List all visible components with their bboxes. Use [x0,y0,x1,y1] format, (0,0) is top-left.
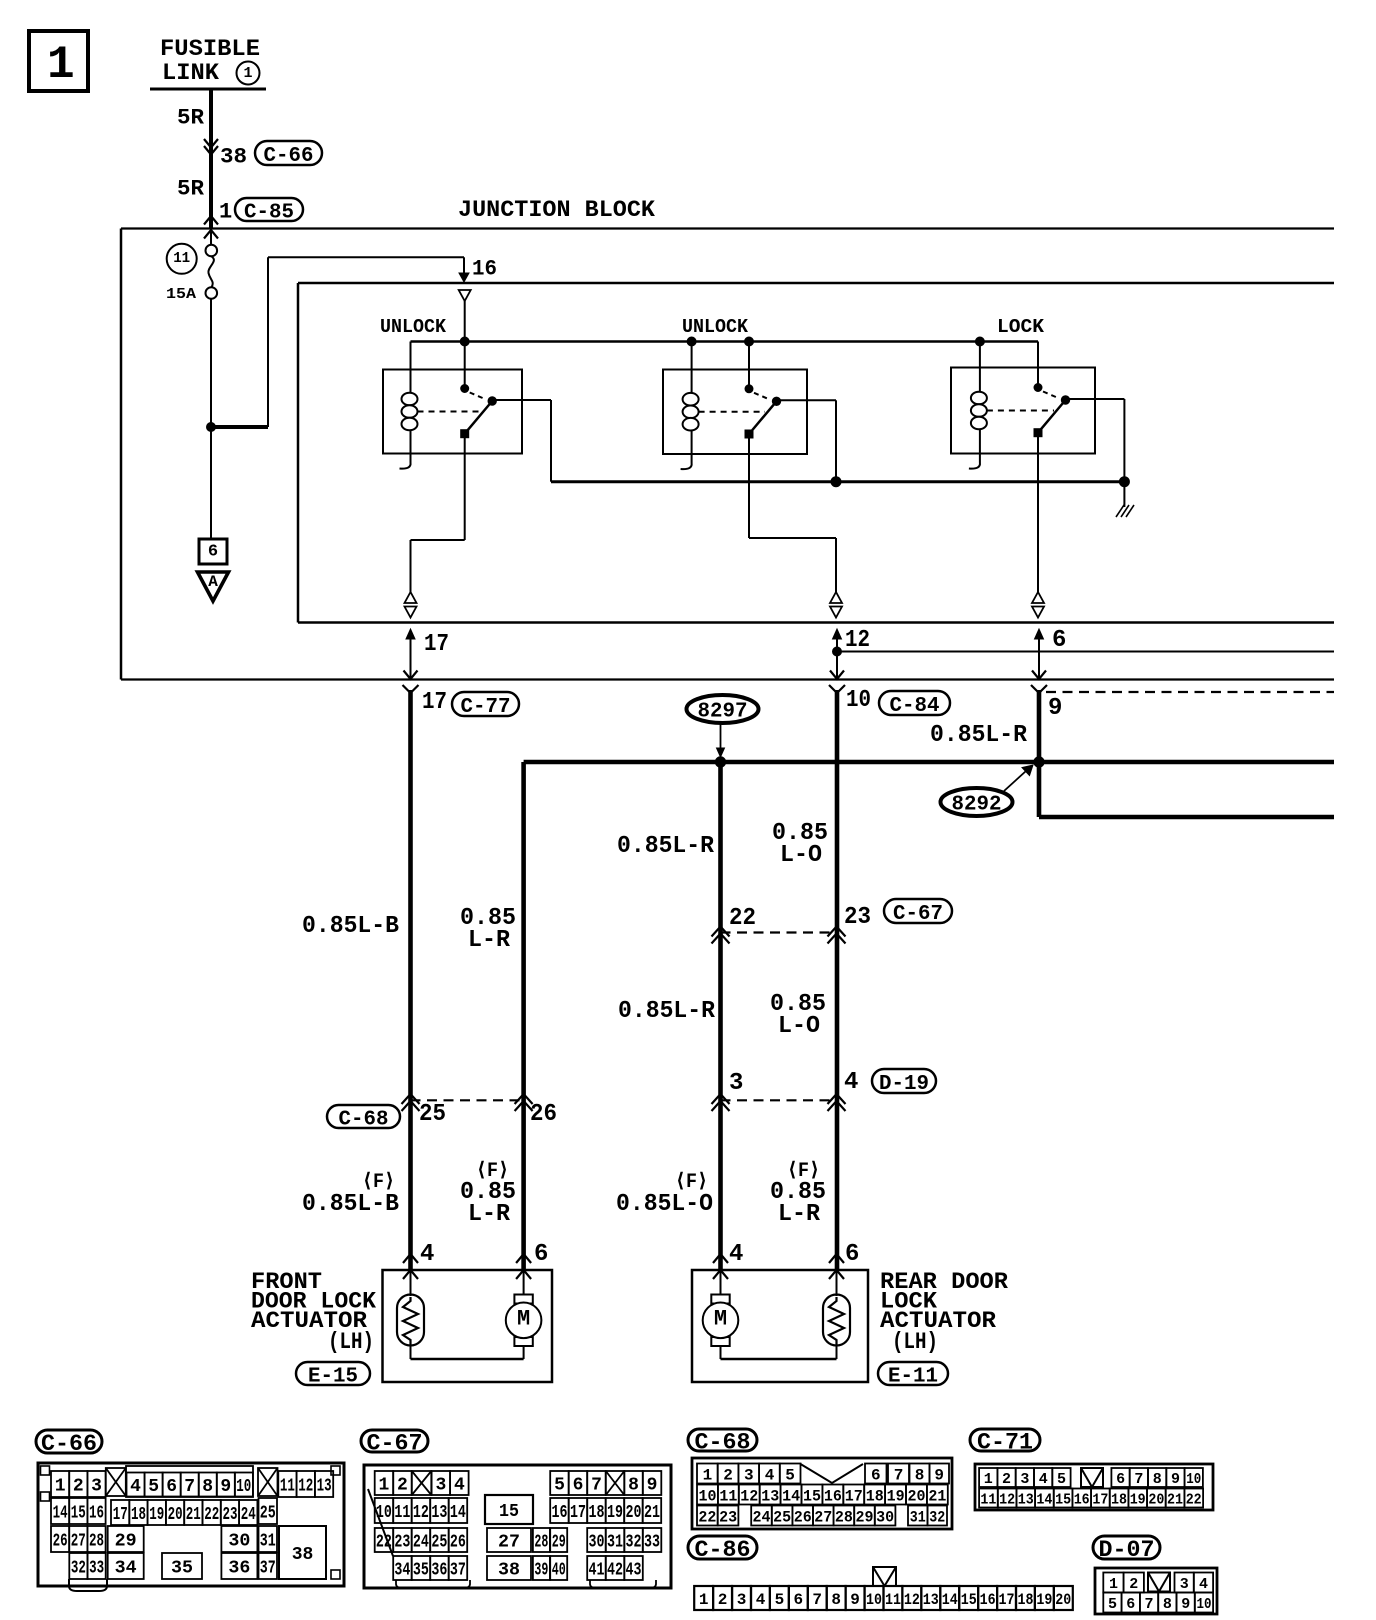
label 0.85 L-R (front pin6 wire) [460,905,516,954]
svg-text:16: 16 [980,1591,996,1609]
svg-text:15: 15 [803,1487,821,1505]
svg-text:10: 10 [699,1487,717,1505]
svg-text:22: 22 [204,1505,219,1525]
front actuator motor M [506,1295,542,1347]
svg-text:27: 27 [498,1533,520,1553]
svg-text:C-66: C-66 [264,145,314,168]
svg-text:15: 15 [71,1504,86,1524]
chevrons below block x=410.5 [403,685,419,693]
svg-text:43: 43 [626,1561,642,1581]
splice 8292 arrow [1004,765,1033,791]
svg-text:8: 8 [831,1591,841,1609]
chevrons at 26 [515,1094,533,1111]
svg-text:21: 21 [1167,1492,1183,1509]
svg-text:8297: 8297 [698,701,748,724]
svg-text:L-R: L-R [778,1201,821,1228]
svg-text:12: 12 [999,1492,1015,1509]
label UNLOCK [380,316,447,338]
wire 16 to relay rail [464,301,466,342]
page number box 1 [29,31,88,91]
svg-text:14: 14 [782,1487,800,1505]
svg-text:21: 21 [644,1503,660,1523]
splice 8292 oval [941,788,1013,817]
wire relay3 output down [1123,399,1125,482]
label 22 [729,905,756,932]
svg-text:35: 35 [171,1559,193,1579]
connector D-19 stadium [872,1069,936,1096]
svg-text:4: 4 [1199,1576,1208,1593]
svg-text:17: 17 [999,1591,1015,1609]
wire relay1 output down [550,400,552,482]
label 4 (D-19 pin) [844,1069,858,1096]
svg-text:39: 39 [534,1561,548,1581]
svg-text:11: 11 [719,1487,737,1505]
svg-text:8292: 8292 [952,794,1002,817]
wire S297 down to rear actuator pin4 [718,762,723,1270]
wire relay3 bottom contact [1037,437,1039,592]
relay UNLOCK-1 X1 box [383,370,522,454]
front actuator wiring [411,1270,524,1359]
svg-text:6: 6 [1126,1596,1135,1613]
label 16 [472,256,497,281]
svg-text:C-67: C-67 [893,903,943,926]
junction dot 8292 [1034,757,1044,767]
chevrons below block x=1039 [1031,685,1047,693]
svg-text:42: 42 [607,1561,623,1581]
chevrons at 3 [712,1094,730,1111]
svg-text:10: 10 [376,1503,392,1523]
svg-text:17: 17 [1092,1492,1108,1509]
pin 17 arrow [404,629,418,679]
svg-text:C-84: C-84 [890,695,940,718]
chevrons at 25 [402,1094,420,1111]
connector C-77 stadium [452,692,519,719]
svg-text:25: 25 [431,1533,447,1553]
svg-text:15: 15 [499,1502,519,1522]
svg-text:C-85: C-85 [244,201,294,224]
svg-text:12: 12 [413,1503,429,1523]
svg-text:19: 19 [1036,1591,1052,1609]
connector crossing 25/26 C-68 dashed [411,1099,524,1101]
svg-text:14: 14 [450,1503,466,1523]
connector triangles at x=836 [830,592,842,618]
svg-text:23: 23 [719,1508,737,1526]
svg-text:12: 12 [298,1477,313,1497]
svg-text:23: 23 [223,1505,238,1525]
svg-text:11: 11 [280,1477,295,1497]
actuator pin label 6 x=845 [845,1241,859,1268]
svg-text:8: 8 [915,1466,925,1484]
svg-text:9: 9 [647,1476,658,1496]
svg-text:31: 31 [607,1533,623,1553]
label 6 (junction pin) [1052,627,1066,654]
chevrons at 22 [712,927,730,944]
chassis ground symbol [1116,482,1134,517]
relay UNLOCK-2 X2 coil dashed link [699,411,765,413]
svg-text:13: 13 [923,1591,939,1609]
wire pin9 down to bus [1037,690,1042,762]
junction dot 8297 [715,757,725,767]
actuator pin 6 chevrons x=836.5 [829,1254,844,1279]
junction dot relay3 output [1119,477,1129,487]
svg-text:9: 9 [220,1477,231,1497]
svg-text:5R: 5R [177,176,205,201]
label F 0.85L-O [616,1171,713,1218]
svg-text:4: 4 [420,1241,434,1268]
bus wire y=482 [551,480,1124,483]
svg-text:D-19: D-19 [879,1073,929,1096]
svg-text:C-66: C-66 [41,1431,97,1457]
label 5R lower [177,176,205,201]
svg-text:10: 10 [866,1591,882,1609]
svg-text:33: 33 [644,1533,660,1553]
svg-text:16: 16 [472,256,497,281]
svg-text:2: 2 [1129,1576,1138,1593]
svg-text:LINK: LINK [162,60,219,86]
label 25 [419,1101,446,1128]
svg-text:14: 14 [1036,1492,1052,1509]
svg-text:11: 11 [394,1503,410,1523]
svg-text:10: 10 [1197,1596,1212,1613]
svg-text:13: 13 [431,1503,447,1523]
label 10 C-84 pin [846,687,871,714]
wire to unit 6 [210,427,212,539]
svg-text:15: 15 [1055,1492,1071,1509]
svg-text:19: 19 [607,1503,623,1523]
svg-text:4: 4 [454,1476,465,1496]
svg-text:18: 18 [1018,1591,1034,1609]
svg-text:32: 32 [929,1508,945,1526]
svg-text:5: 5 [148,1477,159,1497]
svg-text:14: 14 [942,1591,958,1609]
chevrons entering junction block [204,216,218,239]
svg-text:17: 17 [422,689,447,716]
svg-text:E-15: E-15 [308,1365,358,1388]
pin 12 arrow [830,629,844,679]
label F 0.85 L-R (front) [460,1160,516,1228]
svg-text:3: 3 [435,1476,446,1496]
svg-text:D-07: D-07 [1099,1537,1155,1563]
front actuator coil (resistor) [397,1295,424,1346]
relay UNLOCK-2 X2 coil [681,342,699,470]
svg-text:6: 6 [871,1466,881,1484]
svg-text:20: 20 [908,1487,926,1505]
svg-text:10: 10 [846,687,871,714]
svg-text:A: A [208,573,218,591]
svg-text:6: 6 [793,1591,803,1609]
svg-text:9: 9 [1181,1596,1190,1613]
front actuator label [251,1269,376,1355]
svg-text:20: 20 [168,1505,183,1525]
svg-text:M: M [714,1306,727,1331]
svg-text:23: 23 [844,904,871,931]
svg-text:0.85L-B: 0.85L-B [302,1191,399,1218]
svg-text:3: 3 [737,1591,747,1609]
label F 0.85L-B [302,1171,399,1218]
svg-text:41: 41 [589,1561,605,1581]
svg-text:20: 20 [626,1503,642,1523]
svg-text:18: 18 [866,1487,884,1505]
chevrons below block x=837 [829,685,845,693]
connector crossing 3/4 D-19 dashed [721,1099,837,1101]
svg-text:9: 9 [1048,695,1062,722]
relay LOCK X3 output wire [1066,398,1125,400]
svg-text:3: 3 [1180,1576,1189,1593]
wire branch to 16 feed [211,257,469,427]
label 3 [729,1070,743,1097]
rear actuator coil (resistor) [823,1295,850,1346]
svg-text:11: 11 [980,1492,996,1509]
connector D-07 pinout [1093,1536,1217,1614]
connector C-86 pinout [688,1536,1073,1610]
svg-text:24: 24 [753,1508,771,1526]
svg-text:16: 16 [1074,1492,1090,1509]
svg-text:28: 28 [835,1508,853,1526]
svg-text:6: 6 [208,543,218,562]
svg-text:2: 2 [397,1476,408,1496]
splice 8297 arrow [717,723,725,757]
connector C-71 pinout [970,1429,1213,1510]
svg-text:19: 19 [887,1487,905,1505]
label 38 [220,144,247,169]
svg-text:34: 34 [115,1559,137,1579]
relay UNLOCK-2 X2 switch [745,342,781,439]
svg-text:1: 1 [703,1466,713,1484]
svg-text:11: 11 [173,250,190,267]
svg-text:13: 13 [1018,1492,1034,1509]
svg-text:7: 7 [1134,1471,1143,1488]
svg-text:8: 8 [1163,1596,1172,1613]
svg-text:25: 25 [773,1508,791,1526]
svg-text:14: 14 [53,1504,68,1524]
svg-text:13: 13 [761,1487,779,1505]
svg-text:40: 40 [552,1561,566,1581]
svg-text:38: 38 [498,1561,520,1581]
relay rail wire [411,340,1039,343]
relay UNLOCK-1 X1 coil dashed link [418,411,481,413]
connector E-15 stadium [296,1362,370,1388]
wire 0.85L-B vertical [408,690,413,1270]
label 0.85L-R (lower mid) [618,998,716,1025]
svg-text:4: 4 [765,1466,775,1484]
svg-text:26: 26 [53,1532,68,1552]
svg-text:9: 9 [850,1591,860,1609]
connector C-67 stadium (mid) [884,899,952,926]
svg-text:24: 24 [241,1505,256,1525]
svg-text:3: 3 [1020,1471,1029,1488]
svg-text:UNLOCK: UNLOCK [682,316,749,338]
svg-text:12: 12 [740,1487,758,1505]
svg-text:1: 1 [1109,1576,1118,1593]
svg-text:31: 31 [260,1532,276,1552]
svg-text:22: 22 [729,905,756,932]
svg-text:12: 12 [845,627,870,654]
svg-text:32: 32 [71,1559,86,1579]
svg-text:5: 5 [1057,1471,1066,1488]
fuse 11 circle label [167,244,197,274]
svg-text:5: 5 [1108,1596,1117,1613]
svg-text:19: 19 [1130,1492,1146,1509]
label 0.85L-B [302,913,399,940]
connector crossing 38 C-66 chevrons [204,139,218,155]
svg-text:1: 1 [378,1476,389,1496]
svg-text:19: 19 [149,1505,164,1525]
svg-text:17: 17 [424,631,449,658]
pin 6 arrow [1032,629,1046,679]
actuator pin label 6 x=534 [534,1241,548,1268]
svg-text:38: 38 [292,1545,314,1565]
svg-text:17: 17 [845,1487,863,1505]
svg-text:C-86: C-86 [695,1537,751,1563]
svg-text:18: 18 [589,1503,605,1523]
actuator pin 4 chevrons x=410.5 [403,1254,418,1279]
svg-text:JUNCTION BLOCK: JUNCTION BLOCK [458,197,655,223]
svg-text:20: 20 [1055,1591,1071,1609]
svg-text:1: 1 [984,1471,993,1488]
svg-text:6: 6 [1052,627,1066,654]
svg-text:1: 1 [243,65,252,82]
label 1 (pin) [219,199,232,224]
svg-text:7: 7 [812,1591,822,1609]
label 9 pin [1048,695,1062,722]
connector crossing 22/23 C-67 dashed [721,931,837,933]
wire S292 branch elbow [1039,762,1334,817]
fuse 15A symbol [206,232,218,299]
svg-text:31: 31 [910,1508,926,1526]
relay LOCK X3 coil dashed link [987,410,1054,412]
wire fuse to junction dot [210,299,212,427]
svg-text:8: 8 [628,1476,639,1496]
svg-text:24: 24 [413,1533,429,1553]
label 0.85L-R (S297 wire) [617,833,715,860]
relay LOCK X3 switch [1034,342,1070,437]
svg-text:C-68: C-68 [339,1108,389,1131]
actuator pin 4 chevrons x=720.5 [713,1254,728,1279]
svg-text:21: 21 [928,1487,946,1505]
svg-text:C-67: C-67 [367,1431,423,1457]
svg-text:28: 28 [89,1532,104,1552]
svg-text:8: 8 [202,1477,213,1497]
svg-text:5: 5 [554,1476,565,1496]
svg-text:16: 16 [552,1503,568,1523]
connector C-68 stadium (mid) [327,1105,400,1131]
svg-text:30: 30 [228,1532,250,1552]
svg-text:6: 6 [166,1477,177,1497]
svg-text:6: 6 [534,1241,548,1268]
svg-text:2: 2 [718,1591,728,1609]
svg-text:22: 22 [376,1533,392,1553]
svg-text:21: 21 [186,1505,201,1525]
svg-text:18: 18 [131,1505,146,1525]
svg-text:16: 16 [89,1504,104,1524]
svg-text:4: 4 [1039,1471,1048,1488]
fusible link label [150,36,266,89]
connector triangle below 16 [459,290,471,301]
junction dot relay2 output [831,477,841,487]
wire relay1 bottom contact [411,437,465,592]
relay UNLOCK-1 X1 switch [461,342,497,438]
svg-text:35: 35 [413,1561,429,1581]
svg-text:16: 16 [824,1487,842,1505]
wire relay2 output down [835,400,837,481]
label 0.85L-R (pin9 wire) [930,722,1028,749]
chevrons at 23 [828,927,846,944]
label 23 [844,904,871,931]
svg-text:13: 13 [317,1477,332,1497]
connector E-11 stadium [878,1362,948,1388]
svg-text:26: 26 [530,1101,557,1128]
svg-text:22: 22 [1186,1492,1202,1509]
svg-text:38: 38 [220,144,247,169]
svg-text:C-77: C-77 [461,696,511,719]
svg-text:E-11: E-11 [888,1365,938,1388]
label 17 (junction pin) [424,631,449,658]
bus corner down to front actuator pin6 [521,762,526,1270]
svg-text:37: 37 [260,1559,276,1579]
dashed line y=692 [1046,691,1334,693]
actuator pin label 4 x=420 [420,1241,434,1268]
actuator pin 6 chevrons x=523.6 [516,1254,531,1279]
connector C-66 stadium (top) [255,141,322,168]
junction block outer box [121,229,1334,680]
svg-text:L-O: L-O [778,1013,820,1040]
label 15A [166,286,196,303]
svg-text:15: 15 [961,1591,977,1609]
svg-text:29: 29 [552,1533,566,1553]
svg-text:15A: 15A [166,286,196,303]
svg-text:FUSIBLE: FUSIBLE [160,36,260,62]
svg-text:27: 27 [71,1532,86,1552]
svg-text:C-71: C-71 [977,1430,1033,1456]
label 26 [530,1101,557,1128]
svg-text:4: 4 [130,1477,141,1497]
rear actuator wiring [721,1270,837,1359]
svg-text:5R: 5R [177,105,205,130]
svg-text:UNLOCK: UNLOCK [380,316,447,338]
connector C-68 pinout [688,1429,952,1529]
rail junction dots [460,337,984,346]
junction block label [458,197,655,223]
svg-text:28: 28 [534,1533,548,1553]
svg-text:22: 22 [698,1508,716,1526]
relay LOCK X3 box [951,368,1095,454]
svg-text:10: 10 [1186,1471,1201,1488]
svg-text:5: 5 [785,1466,795,1484]
svg-text:18: 18 [1111,1492,1127,1509]
svg-text:3: 3 [729,1070,743,1097]
svg-text:2: 2 [723,1466,733,1484]
svg-text:34: 34 [394,1561,410,1581]
junction dot at fuse branch [207,423,216,432]
label LOCK [997,316,1045,338]
label 5R upper [177,105,205,130]
svg-text:26: 26 [450,1533,466,1553]
svg-text:(LH): (LH) [328,1329,374,1355]
svg-text:1: 1 [219,199,232,224]
wire relay2 bottom contact [749,437,836,592]
wire y=651 to right [833,647,1335,656]
connector C-85 stadium [235,198,303,224]
relay UNLOCK-2 X2 box [663,370,807,455]
svg-text:7: 7 [591,1476,602,1496]
relay UNLOCK-2 X2 output wire [777,399,837,401]
unit 6 box [199,539,227,564]
svg-text:32: 32 [626,1533,642,1553]
svg-text:3: 3 [744,1466,754,1484]
relay LOCK X3 coil [969,342,987,469]
svg-text:LOCK: LOCK [997,316,1045,338]
front door lock actuator box [383,1270,553,1382]
